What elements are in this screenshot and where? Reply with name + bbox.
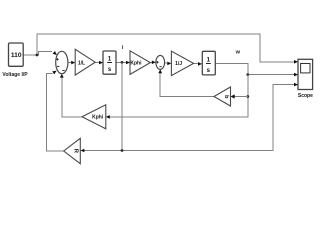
wire R output up to sum1 left lower input <box>46 74 63 151</box>
arrow into sum2 bottom minus input <box>158 69 162 73</box>
wire top line to Scope input 1 <box>37 34 295 62</box>
integrator 2 <box>202 51 215 75</box>
arrow into sum1 plus input <box>53 51 57 55</box>
wire from Voltage source to sum J1 <box>23 54 37 56</box>
node i junction <box>121 61 124 64</box>
arrow into integrator 1 <box>99 61 103 65</box>
arrow into scope input 1 <box>294 60 298 64</box>
sum1 minus sign bottom <box>62 70 64 72</box>
wire integrator1 output to gain Kphi (current i) <box>116 61 127 63</box>
arrow into 1/L <box>71 61 75 65</box>
arrow into Kphi <box>126 61 130 65</box>
scope block <box>298 59 313 89</box>
arrow into gain b <box>231 94 235 98</box>
wire Kphi feedback output to sum1 bottom <box>62 77 82 117</box>
arrow into sum2 plus input <box>152 61 156 65</box>
arrow into scope input 2 <box>294 73 298 77</box>
wire sum2 output to gain 1/J <box>165 62 168 64</box>
constant block 110 <box>9 43 24 66</box>
arrow into scope input 3 <box>294 83 298 87</box>
arrow into gain R <box>80 149 84 153</box>
wire w down to Kphi feedback input <box>109 75 247 117</box>
integrator 1 <box>103 51 116 74</box>
sum1 plus sign <box>56 58 58 60</box>
sum block 2 <box>156 55 165 69</box>
arrow into sum1 bottom minus input <box>60 74 64 78</box>
node R line junction <box>121 149 124 152</box>
svg-text:Voltage I/P: Voltage I/P <box>2 72 28 78</box>
arrow into sum1 middle minus input <box>52 71 56 75</box>
gain 1/J <box>171 51 193 75</box>
svg-text:1/L: 1/L <box>78 61 85 67</box>
wire integrator2 output w to scope input 2 <box>215 63 294 74</box>
wire i junction down to R feedback line <box>121 62 123 150</box>
wire sum1 output to gain 1/L <box>68 62 72 64</box>
node junction at voltage output <box>36 54 39 57</box>
svg-text:Kphi: Kphi <box>130 61 142 67</box>
node w junction <box>246 73 249 76</box>
sum1 minus sign left <box>57 65 59 67</box>
svg-text:Scope: Scope <box>298 93 313 99</box>
wire b output to sum2 bottom <box>160 73 214 96</box>
svg-text:w: w <box>235 49 241 55</box>
gain 1/L <box>75 49 95 75</box>
sum2 minus sign <box>159 66 161 68</box>
sum block 1 <box>56 51 68 73</box>
svg-text:110: 110 <box>11 52 22 59</box>
wire current line to gain R and to scope input 3 <box>84 85 295 151</box>
gain R feedback <box>64 138 81 163</box>
wire step into sum1 plus input <box>37 52 52 55</box>
svg-text:1/J: 1/J <box>175 61 182 67</box>
gain Kphi feedback <box>82 105 106 129</box>
arrow into 1/J <box>167 62 171 66</box>
gain b feedback <box>214 87 231 106</box>
svg-text:Kphi: Kphi <box>92 115 104 121</box>
wire 1/J to integrator 2 <box>194 62 199 64</box>
wire to gain b input <box>234 96 247 98</box>
sum2 plus sign <box>156 61 158 63</box>
node b input junction <box>246 95 249 98</box>
wire Kphi to sum2 <box>150 62 152 64</box>
arrow into integrator 2 <box>198 62 202 66</box>
gain Kphi forward <box>130 51 150 75</box>
wire 1/L to integrator 1 <box>95 62 100 64</box>
arrow into Kphi feedback <box>106 115 110 119</box>
